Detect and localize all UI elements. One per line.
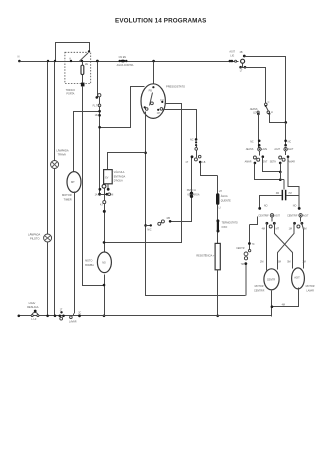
contact pressostato right upper <box>161 101 163 103</box>
wire left column mid <box>259 151 261 156</box>
svg-text:ÁGUA: ÁGUA <box>221 195 228 198</box>
node right column NC dots <box>284 140 287 143</box>
svg-text:NO: NO <box>264 205 268 208</box>
wire LB branch to heater <box>201 163 218 176</box>
wire pressostato full-level output to pump <box>105 104 182 243</box>
svg-text:2M: 2M <box>260 261 263 264</box>
contact left row2 circles <box>253 156 256 159</box>
contact LAVAR circle <box>70 316 73 319</box>
pressostato body <box>141 84 165 119</box>
node bus junction pressostato <box>152 60 155 63</box>
svg-text:MT: MT <box>276 227 280 230</box>
svg-text:4M: 4M <box>282 303 285 306</box>
svg-text:EVOLUTION 14 PROGRAMAS: EVOLUTION 14 PROGRAMAS <box>115 18 207 25</box>
svg-text:AGIT: AGIT <box>274 148 280 151</box>
wire float feed from bus <box>97 62 99 97</box>
contact 1T bus <box>60 311 62 313</box>
wire pressostato level output right <box>163 110 197 139</box>
svg-text:NC: NC <box>250 141 254 144</box>
contact valve out right circle <box>108 193 111 196</box>
node pump junction y242 <box>103 241 106 244</box>
wire left row2 left branch <box>255 164 281 180</box>
node NO right dot <box>298 207 301 210</box>
svg-text:NO: NO <box>293 205 297 208</box>
wire top supply bus <box>20 61 239 63</box>
svg-text:MT: MT <box>71 180 75 184</box>
svg-text:LIG: LIG <box>230 55 234 58</box>
contact 4B pair on riser <box>190 192 193 195</box>
capacitor C1 plates <box>282 190 284 201</box>
switch jeans-lave selector circle <box>258 148 261 151</box>
svg-text:JEANS: JEANS <box>246 148 254 151</box>
wire pressostato top pin <box>153 62 155 85</box>
svg-text:VÁLVULA: VÁLVULA <box>114 171 125 174</box>
resistor RESISTENCIA body <box>215 243 220 269</box>
svg-text:FL.TO: FL.TO <box>93 104 100 107</box>
wire heater column mid <box>217 205 219 244</box>
wire heater column upper <box>217 176 219 194</box>
node NC branch dot <box>144 224 147 227</box>
svg-text:NO: NO <box>102 261 106 264</box>
contact AGIT LIG bus end dots <box>229 60 232 63</box>
motor lavar body <box>292 268 305 289</box>
wire left selector stub <box>271 217 273 222</box>
wire valve box stub <box>107 184 109 189</box>
svg-text:1A: 1A <box>95 193 98 196</box>
node float branch dot <box>98 110 101 113</box>
svg-text:PORTA: PORTA <box>66 93 74 96</box>
switch centrif-agit left circle <box>270 214 273 217</box>
svg-text:BOMBA: BOMBA <box>85 264 94 267</box>
svg-text:SETA: SETA <box>270 160 276 163</box>
node CENTR top dot <box>248 242 251 245</box>
contact right row2 circles <box>279 156 282 159</box>
node pump door-line dot <box>103 284 106 287</box>
wire left row2 right branch <box>263 158 281 172</box>
node valve branch dot <box>144 152 147 155</box>
node bus junction x82 <box>81 60 83 62</box>
node CENTR lower dot <box>244 262 247 265</box>
node float feed bus dot <box>96 60 99 63</box>
node bus junction x48 <box>47 60 49 62</box>
wire MT to bottom bus <box>74 192 75 316</box>
contact pressostato mid circle <box>151 102 154 105</box>
svg-text:JEANS: JEANS <box>250 108 258 111</box>
svg-text:1M: 1M <box>302 261 305 264</box>
switch S1 door interlock blade <box>79 53 88 61</box>
motor centrif body <box>264 269 279 290</box>
wire valve feed branch <box>108 153 146 170</box>
svg-text:AMAR: AMAR <box>245 160 252 163</box>
node float lower branch dot <box>98 126 101 129</box>
node resistor bus dot <box>216 315 219 318</box>
node bottom left terminal dot <box>18 315 21 318</box>
switch liga-desliga bump arc <box>32 312 38 315</box>
svg-text:CENTR: CENTR <box>236 247 245 250</box>
wire trava lamp column lower <box>54 169 56 316</box>
switch float contact circle <box>98 94 101 97</box>
node loop to box dot <box>88 50 90 52</box>
svg-text:PILOTO: PILOTO <box>30 236 39 240</box>
wire left column upper <box>258 114 260 148</box>
svg-text:PRESSOSTATO: PRESSOSTATO <box>166 84 185 88</box>
svg-text:2B: 2B <box>240 51 243 54</box>
node left column NC dots <box>258 140 261 143</box>
contact termostato bar <box>217 222 219 230</box>
svg-text:NC: NC <box>288 141 292 144</box>
wire right row2 right branch <box>288 158 299 196</box>
switch pressostato blade <box>150 93 153 106</box>
wire 2B feed to right column <box>245 57 286 123</box>
thermostat agua quente bar <box>216 193 219 205</box>
contact motor row left circle <box>269 225 272 228</box>
wire motor bottoms link <box>272 288 299 317</box>
node pump feed dot <box>103 210 106 213</box>
wire right column upper <box>285 123 287 147</box>
wire cap right lead <box>287 196 300 209</box>
svg-text:CENTRIF: CENTRIF <box>258 214 269 217</box>
wire jeans out to right column <box>270 114 286 123</box>
svg-text:LAVE: LAVE <box>261 148 267 151</box>
svg-text:MOTOR: MOTOR <box>306 285 315 288</box>
wire pilot lamp column upper <box>47 62 49 235</box>
wire bottom neutral bus <box>19 315 272 317</box>
switch jeans contact LI <box>267 111 270 114</box>
contact valve lower circle <box>103 201 106 204</box>
node NO left dot <box>258 207 261 210</box>
svg-text:AGIT: AGIT <box>294 277 300 280</box>
wire door line long vertical <box>83 86 104 286</box>
switch jeans contact C <box>265 103 268 106</box>
wire LT feed to jeans switch <box>241 64 266 104</box>
svg-text:NC: NC <box>190 139 194 142</box>
wire cap column <box>281 172 285 190</box>
svg-text:5M: 5M <box>287 261 290 264</box>
wire motor right outer <box>302 223 304 269</box>
svg-text:CENTRIF: CENTRIF <box>287 214 298 217</box>
svg-text:AGIT: AGIT <box>229 51 235 54</box>
wire motor cross right-to-left <box>278 223 295 270</box>
contact FL.TO circle <box>98 104 101 107</box>
svg-text:MOTOR: MOTOR <box>62 193 72 197</box>
wire right selector stub <box>300 217 302 222</box>
switch NC circles <box>158 222 161 225</box>
contact pressostato right lower <box>160 108 163 111</box>
svg-text:7M: 7M <box>288 192 291 195</box>
node pressostato column dot NC <box>195 138 198 141</box>
wire CENTR feed from selector <box>250 217 258 225</box>
contact column circle <box>195 148 198 151</box>
wire cap left lead <box>260 196 282 209</box>
contact valve bottom circle <box>102 184 106 188</box>
svg-text:MOTO: MOTO <box>85 260 92 263</box>
svg-text:PB: PB <box>149 89 153 92</box>
node cap mid dot <box>279 178 282 181</box>
svg-text:QUENTE: QUENTE <box>221 199 231 202</box>
svg-text:DESLIGA: DESLIGA <box>27 305 39 309</box>
contact pressostato lower-left <box>144 106 146 108</box>
contact valve row dots <box>99 188 102 191</box>
switch jeans blade <box>266 107 268 112</box>
wire resistor to bus <box>217 270 219 316</box>
contact 2B dot <box>243 55 246 58</box>
svg-text:N: N <box>18 56 20 59</box>
wire valve out row <box>100 194 107 196</box>
switch liga-desliga foot circles <box>31 315 33 317</box>
svg-text:LAVAR: LAVAR <box>69 321 77 324</box>
contact small circle <box>235 60 237 62</box>
svg-text:N/C: N/C <box>147 229 151 232</box>
svg-text:PESO LI: PESO LI <box>187 189 197 192</box>
svg-text:TERMOSTATO: TERMOSTATO <box>222 222 238 225</box>
svg-text:AMAR: AMAR <box>288 160 295 163</box>
svg-text:LIGA/: LIGA/ <box>29 301 36 305</box>
contact CN EN agua contrl dots <box>119 60 121 62</box>
svg-text:CN EN: CN EN <box>119 56 127 59</box>
node bus junction x71 <box>70 60 72 62</box>
svg-text:2E: 2E <box>85 63 88 66</box>
svg-text:ENTRADA: ENTRADA <box>114 175 126 178</box>
contact motor row right dots <box>293 222 296 225</box>
wire float column <box>99 97 101 195</box>
svg-text:HI: HI <box>111 193 114 196</box>
switch agit-agit selector circle <box>284 148 287 151</box>
node pressostato top pin dot <box>152 86 154 88</box>
lamp piloto <box>44 234 52 242</box>
node bus junction x55 <box>54 60 56 62</box>
contact column dots <box>195 141 197 143</box>
wire MT timer feed branch <box>74 112 100 172</box>
wire valve to pump <box>104 204 106 252</box>
svg-text:3/B: 3/B <box>166 217 170 220</box>
svg-text:MOTOR: MOTOR <box>255 285 264 288</box>
svg-text:LAVAR: LAVAR <box>306 289 314 292</box>
contact 2C dot <box>78 314 81 317</box>
svg-text:LI: LI <box>219 206 221 209</box>
wire pressostato empty output down <box>146 112 246 296</box>
node cap top dot <box>279 171 282 174</box>
svg-text:AGIT: AGIT <box>288 148 294 151</box>
svg-text:3M: 3M <box>276 192 279 195</box>
svg-text:1M: 1M <box>289 227 292 230</box>
wire valve center line <box>104 189 106 201</box>
contact LT row <box>191 155 194 158</box>
wire motor left outer <box>266 223 268 271</box>
switch AGIT LIG main circle <box>241 59 245 63</box>
motor pump bomba <box>97 252 111 273</box>
svg-text:LH: LH <box>219 190 222 193</box>
node pump bus dot <box>103 315 106 318</box>
svg-text:C: C <box>268 101 270 104</box>
wire pilot lamp column lower <box>47 243 49 316</box>
contact LT stub dots <box>239 66 242 69</box>
node termostato dot <box>216 219 219 222</box>
svg-text:6M: 6M <box>278 261 281 264</box>
wire right row2 left branch <box>280 164 282 172</box>
contact motor row right circle <box>297 225 300 228</box>
switch CENTR circles <box>248 249 250 251</box>
svg-text:16A: 16A <box>95 114 100 117</box>
svg-text:L L3: L L3 <box>31 317 37 321</box>
wire pressostato left feed branch <box>100 87 145 128</box>
svg-text:7C: 7C <box>252 243 255 246</box>
switch centrif-agit right circle <box>299 214 302 217</box>
node NC left dot <box>150 224 152 226</box>
node motor link dot <box>271 305 274 308</box>
svg-text:TIMER: TIMER <box>64 197 72 201</box>
svg-text:ENT: ENT <box>263 160 268 163</box>
svg-text:6B CARGA: 6B CARGA <box>187 194 199 197</box>
node bus junction lamp piloto <box>46 315 49 318</box>
resistor PTC in door box <box>82 62 84 83</box>
svg-text:RESISTÊNCIA +: RESISTÊNCIA + <box>196 254 214 257</box>
wire CENTR contact column <box>246 225 250 296</box>
wire right column mid <box>285 151 287 156</box>
contact motor row left dots <box>266 222 269 225</box>
svg-text:EV: EV <box>105 176 109 179</box>
motor MT timer <box>67 172 81 193</box>
contact valve out left dot <box>98 193 101 196</box>
svg-text:2C: 2C <box>78 312 81 315</box>
node bus junction lamp trava <box>54 315 57 318</box>
wire pump to bottom bus <box>104 275 106 316</box>
node N terminal dot <box>18 60 21 63</box>
svg-text:7M: 7M <box>241 263 244 266</box>
svg-text:4M: 4M <box>262 227 265 230</box>
door interlock dashed enclosure <box>65 52 91 83</box>
svg-text:CENTR: CENTR <box>267 279 276 282</box>
svg-text:CENTRIF.: CENTRIF. <box>254 289 265 292</box>
contact valve out right dot <box>106 193 109 196</box>
svg-text:D'ÁGUA: D'ÁGUA <box>114 180 123 183</box>
contact jeans left dot <box>257 111 259 113</box>
svg-text:AGIT: AGIT <box>303 214 309 217</box>
valve EV body <box>104 170 113 184</box>
node NC right dot <box>169 220 172 223</box>
wire door-lock bypass loop <box>56 43 90 62</box>
svg-text:LD: LD <box>253 112 256 115</box>
node float 16A dot <box>98 114 101 117</box>
wire motor cross left-to-right <box>275 223 293 269</box>
svg-text:TRAVA: TRAVA <box>58 153 67 157</box>
node right column join dot <box>285 121 288 124</box>
svg-text:LB: LB <box>202 161 205 164</box>
lamp trava <box>51 161 59 169</box>
switch liga-desliga top dot <box>34 310 37 313</box>
svg-text:FIXO: FIXO <box>222 226 228 229</box>
wire NC switch branch <box>146 158 192 226</box>
contact door box bottom terminal <box>81 83 85 87</box>
svg-text:LI: LI <box>271 111 273 114</box>
node float top dot <box>96 96 99 99</box>
svg-text:AGUA CONTRL: AGUA CONTRL <box>117 64 135 67</box>
wire column to row <box>196 146 198 158</box>
svg-text:AGIT: AGIT <box>274 214 280 217</box>
wire trava lamp column upper <box>54 62 56 161</box>
svg-text:CH: CH <box>157 112 161 115</box>
